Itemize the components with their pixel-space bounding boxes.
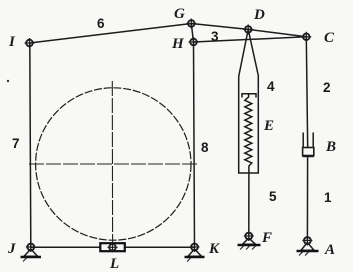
spring E zigzag bbox=[245, 95, 252, 173]
vertical centerline bbox=[111, 81, 113, 243]
wire link 1 damper-A bbox=[306, 157, 308, 241]
svg-text:K: K bbox=[208, 241, 220, 257]
svg-text:2: 2 bbox=[323, 80, 331, 95]
ground support K bbox=[185, 242, 205, 262]
label 1 bbox=[324, 190, 332, 205]
svg-text:D: D bbox=[253, 7, 265, 23]
wire link 7 I-J bbox=[30, 43, 31, 247]
spring E top bracket bbox=[242, 94, 256, 98]
label L bbox=[109, 256, 119, 272]
pivot joint G bbox=[186, 19, 196, 29]
wire link 2 C-damper bbox=[306, 37, 307, 149]
label I bbox=[8, 34, 16, 50]
label 4 bbox=[267, 79, 275, 94]
svg-text:6: 6 bbox=[97, 16, 105, 31]
wire link 5 housing-F bbox=[248, 173, 250, 236]
svg-text:7: 7 bbox=[12, 136, 20, 151]
label H bbox=[171, 36, 185, 52]
label 2 bbox=[323, 80, 331, 95]
label 8 bbox=[201, 140, 209, 155]
label G bbox=[174, 6, 185, 22]
pivot joint L bbox=[108, 242, 118, 252]
pivot joint C bbox=[301, 32, 311, 42]
label K bbox=[208, 241, 220, 257]
svg-text:G: G bbox=[174, 6, 185, 22]
ground support F bbox=[238, 231, 261, 250]
pivot joint H bbox=[189, 37, 199, 47]
svg-text:1: 1 bbox=[324, 190, 332, 205]
wire link 8 H-K bbox=[194, 42, 195, 247]
svg-text:4: 4 bbox=[267, 79, 275, 94]
label 7 bbox=[12, 136, 20, 151]
pivot joint I bbox=[25, 38, 35, 48]
wire link 6 I-G bbox=[30, 24, 192, 44]
svg-text:3: 3 bbox=[211, 29, 219, 44]
wheel circle bbox=[36, 88, 191, 240]
svg-text:I: I bbox=[8, 34, 16, 50]
label A bbox=[324, 242, 335, 258]
wire G-D bbox=[191, 24, 248, 30]
svg-text:F: F bbox=[261, 230, 272, 246]
svg-text:L: L bbox=[109, 256, 119, 272]
link 4 housing bbox=[239, 76, 259, 174]
svg-text:H: H bbox=[171, 36, 185, 52]
label B bbox=[325, 139, 336, 155]
label D bbox=[253, 7, 265, 23]
svg-text:5: 5 bbox=[269, 189, 277, 204]
pivot joint D bbox=[243, 24, 253, 34]
label F bbox=[261, 230, 272, 246]
horizontal centerline bbox=[29, 163, 199, 165]
svg-text:E: E bbox=[263, 118, 274, 134]
wire G-H bbox=[191, 24, 193, 43]
svg-text:8: 8 bbox=[201, 140, 209, 155]
label 3 bbox=[211, 29, 219, 44]
damper B piston bbox=[303, 148, 314, 156]
ground support J bbox=[21, 242, 42, 262]
damper B cylinder bbox=[303, 133, 313, 157]
wire link 3 H-C bbox=[194, 37, 307, 42]
wire J-K bbox=[31, 246, 195, 248]
wire D-C bbox=[248, 29, 306, 36]
ground support A bbox=[297, 236, 319, 256]
label J bbox=[7, 241, 16, 257]
stray dot bbox=[7, 80, 9, 82]
svg-text:J: J bbox=[7, 241, 16, 257]
label E bbox=[263, 118, 274, 134]
hanger link 4 taper bbox=[239, 29, 259, 76]
label 5 bbox=[269, 189, 277, 204]
slider L block bbox=[100, 243, 125, 251]
svg-text:B: B bbox=[325, 139, 336, 155]
svg-text:C: C bbox=[324, 30, 335, 46]
label C bbox=[324, 30, 335, 46]
label 6 bbox=[97, 16, 105, 31]
svg-text:A: A bbox=[324, 242, 335, 258]
